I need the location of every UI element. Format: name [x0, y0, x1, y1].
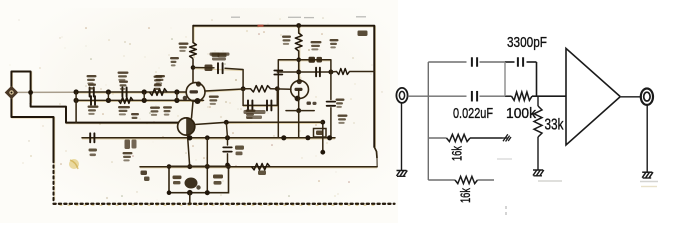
svg-text:0.022uF: 0.022uF: [453, 105, 493, 122]
svg-text:16k: 16k: [450, 146, 465, 161]
svg-text:33k: 33k: [545, 117, 564, 134]
svg-text:3300pF: 3300pF: [507, 34, 547, 51]
svg-text:100k: 100k: [506, 105, 536, 122]
svg-text:16k: 16k: [458, 188, 473, 203]
